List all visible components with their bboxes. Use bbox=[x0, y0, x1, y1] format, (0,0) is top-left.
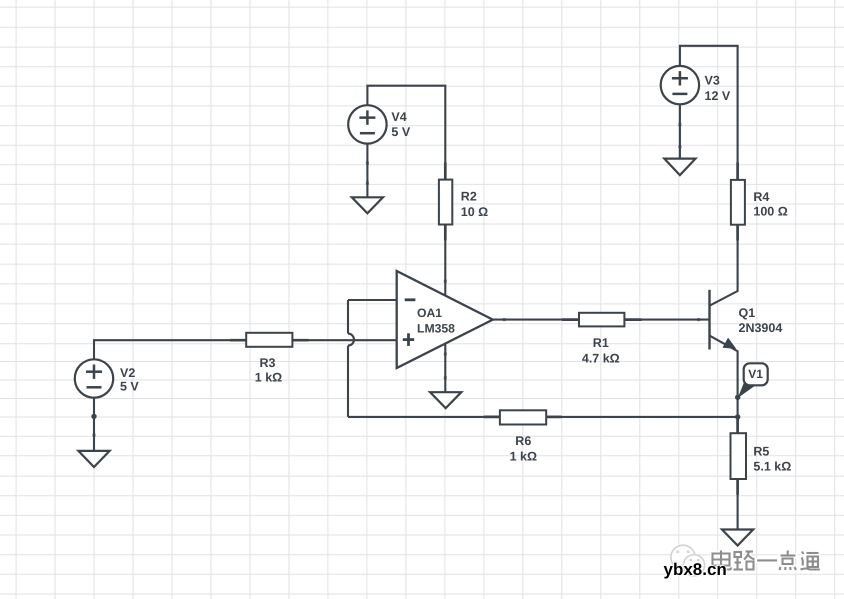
svg-text:10 Ω: 10 Ω bbox=[461, 205, 488, 219]
svg-text:Q1: Q1 bbox=[739, 306, 756, 320]
svg-text:R6: R6 bbox=[515, 434, 531, 448]
svg-text:R2: R2 bbox=[461, 189, 477, 203]
svg-text:R5: R5 bbox=[753, 444, 769, 458]
svg-text:V4: V4 bbox=[391, 110, 406, 124]
svg-text:5 V: 5 V bbox=[391, 125, 410, 139]
svg-text:V3: V3 bbox=[705, 73, 720, 87]
svg-text:5.1 kΩ: 5.1 kΩ bbox=[753, 459, 791, 473]
svg-text:12 V: 12 V bbox=[705, 89, 731, 103]
svg-text:R4: R4 bbox=[753, 190, 769, 204]
svg-text:OA1: OA1 bbox=[417, 306, 442, 320]
svg-text:LM358: LM358 bbox=[417, 321, 455, 335]
svg-text:1 kΩ: 1 kΩ bbox=[255, 370, 282, 384]
svg-text:1 kΩ: 1 kΩ bbox=[510, 449, 537, 463]
svg-text:V2: V2 bbox=[120, 366, 135, 380]
svg-text:5 V: 5 V bbox=[120, 379, 139, 393]
svg-text:4.7 kΩ: 4.7 kΩ bbox=[582, 352, 620, 366]
svg-text:2N3904: 2N3904 bbox=[739, 321, 783, 335]
svg-text:ybx8.cn: ybx8.cn bbox=[664, 560, 727, 579]
svg-text:V1: V1 bbox=[748, 367, 763, 381]
svg-text:100 Ω: 100 Ω bbox=[753, 205, 787, 219]
svg-text:R3: R3 bbox=[260, 356, 276, 370]
svg-text:R1: R1 bbox=[593, 336, 609, 350]
